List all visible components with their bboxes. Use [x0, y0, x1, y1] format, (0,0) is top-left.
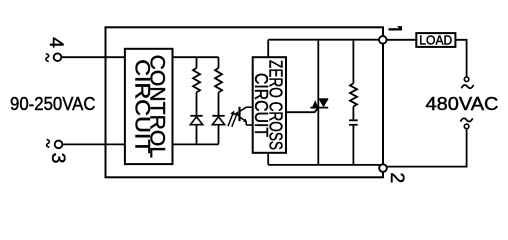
opto LED D2 [212, 116, 224, 125]
phototransistor Q1 [240, 107, 253, 125]
triac Q2 [310, 99, 328, 107]
zero cross circuit box U2 [253, 57, 286, 153]
svg-text:90-250VAC: 90-250VAC [10, 94, 96, 114]
wire zero cross bottom stub [267, 153, 269, 165]
wire bottom bus [268, 164, 381, 166]
wire terminal4 to control circuit [62, 56, 127, 58]
outer SSR package box [106, 27, 384, 177]
diode D1 [190, 116, 202, 125]
wire top bus [268, 39, 383, 41]
wire [352, 125, 354, 165]
control circuit label [130, 55, 168, 159]
wire triac branch [317, 40, 319, 165]
zero cross label [251, 60, 286, 150]
terminal 4 circle [54, 53, 62, 61]
svg-text:2: 2 [386, 172, 408, 183]
wire [352, 106, 354, 120]
terminal 3 circle [55, 141, 63, 149]
opto light arrow 2 [232, 111, 239, 127]
resistor R2 [215, 68, 222, 92]
wire bottom internal bus [173, 143, 219, 145]
wire [196, 125, 198, 145]
wire [218, 125, 220, 145]
capacitor C1 snubber [349, 120, 358, 125]
wire triac gate [286, 108, 318, 113]
tilde terminal3 [47, 139, 50, 147]
control circuit box U1 [125, 49, 173, 164]
svg-text:LOAD: LOAD [419, 34, 452, 48]
wire zero cross top stub [267, 40, 269, 58]
wire [218, 92, 220, 115]
wire left branch [196, 57, 198, 68]
wire LOAD to upper source terminal [455, 40, 466, 77]
label 1 [389, 26, 403, 30]
wire right branch [218, 57, 220, 68]
wire terminal3 to control circuit [63, 143, 127, 145]
svg-text:480VAC: 480VAC [426, 94, 499, 114]
upper source terminal circle [464, 77, 469, 82]
tilde upper [461, 85, 473, 88]
svg-text:3: 3 [47, 153, 69, 164]
wire lower source terminal to terminal2 [383, 129, 467, 167]
terminal 2 circle [379, 164, 387, 172]
lower source terminal circle [464, 124, 469, 129]
wire snubber branch top [352, 40, 354, 84]
svg-text:CIRCUIT: CIRCUIT [251, 73, 271, 137]
wire top internal bus [173, 56, 219, 58]
svg-text:4: 4 [45, 37, 67, 48]
LOAD box [416, 33, 455, 47]
resistor R3 snubber [350, 83, 357, 106]
wire [196, 92, 198, 115]
wire terminal1 to LOAD [383, 39, 417, 41]
opto light arrow 1 [228, 111, 235, 127]
tilde lower [461, 118, 473, 121]
terminal 1 circle [379, 36, 387, 44]
tilde terminal4 [46, 54, 49, 62]
resistor R1 [193, 68, 200, 92]
svg-text:CIRCUIT: CIRCUIT [130, 59, 153, 154]
